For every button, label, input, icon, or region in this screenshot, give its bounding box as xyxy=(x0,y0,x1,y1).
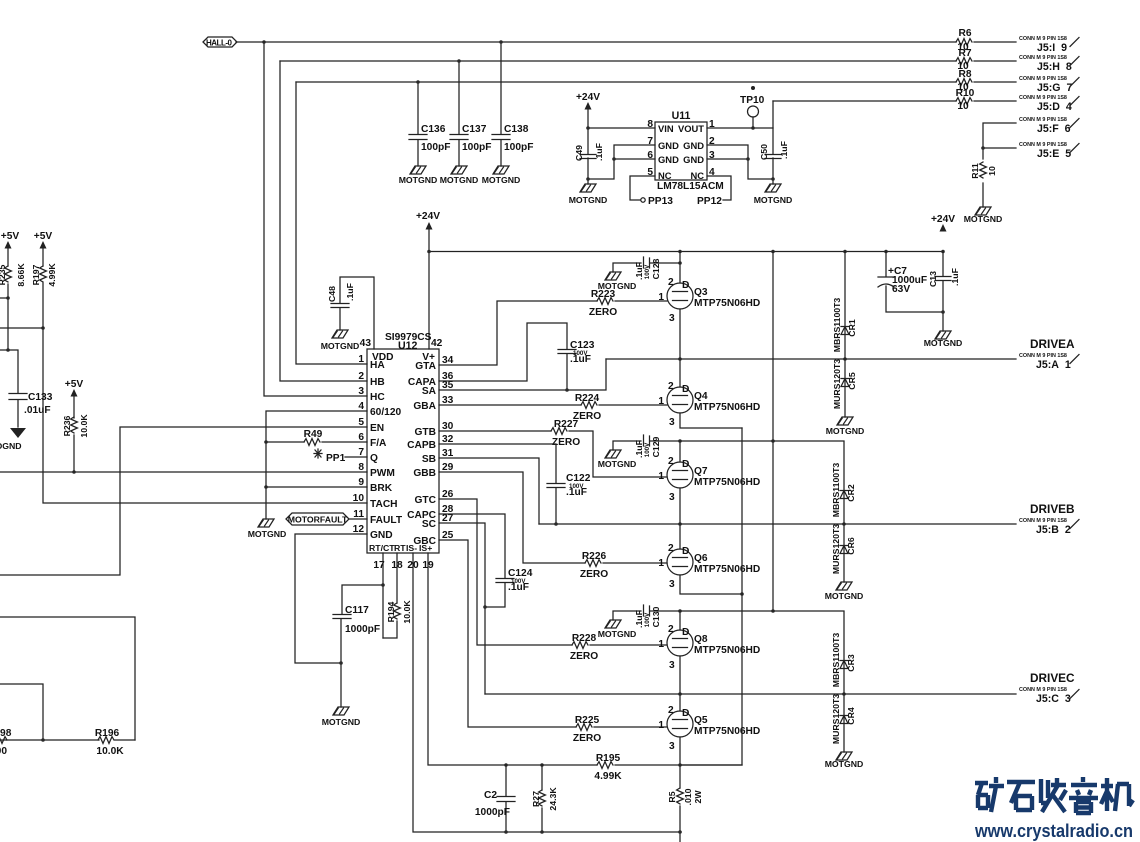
svg-text:60/120: 60/120 xyxy=(370,407,401,418)
svg-text:J5:D 4: J5:D 4 xyxy=(1037,101,1072,113)
svg-text:C133: C133 xyxy=(28,392,53,403)
svg-text:+24V: +24V xyxy=(416,211,440,222)
svg-text:C48: C48 xyxy=(327,286,337,302)
svg-text:R227: R227 xyxy=(554,419,579,430)
svg-text:HALL-0: HALL-0 xyxy=(206,39,232,48)
svg-text:100V: 100V xyxy=(644,442,651,457)
svg-text:1000pF: 1000pF xyxy=(475,807,510,818)
svg-text:R7: R7 xyxy=(958,48,971,59)
svg-text:PWM: PWM xyxy=(370,468,395,479)
svg-text:Q4: Q4 xyxy=(694,391,708,402)
svg-text:MTP75N06HD: MTP75N06HD xyxy=(694,298,760,309)
svg-text:MTP75N06HD: MTP75N06HD xyxy=(694,645,760,656)
svg-text:D: D xyxy=(682,546,689,557)
svg-text:43: 43 xyxy=(360,338,372,349)
svg-text:GND: GND xyxy=(683,140,704,151)
svg-text:TACH: TACH xyxy=(370,499,398,510)
svg-text:GBA: GBA xyxy=(413,401,436,412)
svg-text:IS-: IS- xyxy=(406,543,417,553)
svg-text:R10: R10 xyxy=(956,88,975,99)
svg-text:MBRS1100T3: MBRS1100T3 xyxy=(832,298,842,353)
svg-text:HC: HC xyxy=(370,392,385,403)
svg-text:D: D xyxy=(682,384,689,395)
svg-text:C2: C2 xyxy=(484,790,497,801)
svg-text:10.0K: 10.0K xyxy=(79,414,89,438)
svg-text:3: 3 xyxy=(669,313,675,324)
svg-text:1: 1 xyxy=(658,720,664,731)
svg-text:MOTGND: MOTGND xyxy=(440,175,479,185)
svg-text:MOTGND: MOTGND xyxy=(569,195,608,205)
svg-text:LM78L15ACM: LM78L15ACM xyxy=(657,181,724,192)
svg-text:8: 8 xyxy=(358,462,364,473)
svg-text:C128: C128 xyxy=(651,258,661,279)
svg-text:GND: GND xyxy=(658,154,679,165)
svg-text:C137: C137 xyxy=(462,124,487,135)
svg-text:32: 32 xyxy=(442,434,454,445)
svg-text:.1uF: .1uF xyxy=(566,487,587,498)
svg-text:MOTGND: MOTGND xyxy=(598,629,637,639)
svg-text:2: 2 xyxy=(668,705,674,716)
svg-text:100V: 100V xyxy=(644,264,651,279)
svg-text:2: 2 xyxy=(668,277,674,288)
svg-text:10: 10 xyxy=(353,493,365,504)
svg-text:C50: C50 xyxy=(759,144,769,160)
svg-text:100pF: 100pF xyxy=(462,142,491,153)
svg-text:C136: C136 xyxy=(421,124,446,135)
svg-text:C129: C129 xyxy=(651,436,661,457)
svg-text:D: D xyxy=(682,708,689,719)
svg-text:100pF: 100pF xyxy=(421,142,450,153)
svg-text:MBRS1100T3: MBRS1100T3 xyxy=(831,633,841,688)
svg-text:MOTGND: MOTGND xyxy=(321,341,360,351)
svg-text:3: 3 xyxy=(669,660,675,671)
svg-text:R197: R197 xyxy=(31,264,41,285)
svg-text:.010: .010 xyxy=(683,788,693,805)
svg-text:RT/CT: RT/CT xyxy=(369,543,395,553)
svg-text:GTB: GTB xyxy=(414,427,436,438)
svg-text:10: 10 xyxy=(987,166,997,176)
svg-text:GND: GND xyxy=(683,154,704,165)
svg-text:.1uF: .1uF xyxy=(508,582,529,593)
svg-text:BRK: BRK xyxy=(370,483,393,494)
svg-text:12: 12 xyxy=(353,524,365,535)
svg-text:MURS120T3: MURS120T3 xyxy=(831,694,841,744)
svg-text:MOTGND: MOTGND xyxy=(825,759,864,769)
svg-text:J5:B 2: J5:B 2 xyxy=(1036,524,1071,536)
svg-text:24.3K: 24.3K xyxy=(548,787,558,811)
svg-text:MTP75N06HD: MTP75N06HD xyxy=(694,402,760,413)
svg-text:U12: U12 xyxy=(398,340,418,352)
svg-text:10.0K: 10.0K xyxy=(96,746,124,757)
svg-text:J5:I 9: J5:I 9 xyxy=(1037,42,1067,54)
svg-text:PP13: PP13 xyxy=(648,196,673,207)
svg-text:HA: HA xyxy=(370,360,385,371)
svg-text:TP10: TP10 xyxy=(740,95,765,106)
svg-text:2: 2 xyxy=(668,381,674,392)
svg-text:+24V: +24V xyxy=(576,92,600,103)
svg-text:R6: R6 xyxy=(958,28,971,39)
svg-text:R196: R196 xyxy=(95,728,120,739)
svg-text:+5V: +5V xyxy=(1,231,20,242)
svg-text:3: 3 xyxy=(669,492,675,503)
svg-text:2: 2 xyxy=(358,371,364,382)
svg-text:R224: R224 xyxy=(575,393,600,404)
svg-text:MTP75N06HD: MTP75N06HD xyxy=(694,564,760,575)
svg-text:1: 1 xyxy=(658,558,664,569)
svg-text:+5V: +5V xyxy=(34,231,53,242)
svg-text:EN: EN xyxy=(370,423,384,434)
svg-text:CR3: CR3 xyxy=(846,654,856,672)
svg-text:10.0K: 10.0K xyxy=(402,600,412,624)
svg-text:MOTGND: MOTGND xyxy=(754,195,793,205)
svg-text:MOTGND: MOTGND xyxy=(924,338,963,348)
svg-text:R225: R225 xyxy=(575,715,600,726)
svg-text:PP12: PP12 xyxy=(697,196,722,207)
svg-text:R27: R27 xyxy=(531,791,541,807)
svg-text:GTC: GTC xyxy=(414,495,436,506)
svg-text:Q7: Q7 xyxy=(694,466,708,477)
svg-text:PP1: PP1 xyxy=(326,453,346,464)
svg-text:MURS120T3: MURS120T3 xyxy=(831,524,841,574)
svg-text:D: D xyxy=(682,280,689,291)
svg-text:.1uF: .1uF xyxy=(634,610,644,628)
svg-text:J5:C 3: J5:C 3 xyxy=(1036,693,1071,705)
svg-text:100V: 100V xyxy=(644,612,651,627)
svg-text:J5:F 6: J5:F 6 xyxy=(1037,123,1071,135)
svg-text:R195: R195 xyxy=(596,753,621,764)
svg-text:R8: R8 xyxy=(958,69,971,80)
svg-text:IS+: IS+ xyxy=(419,543,432,553)
svg-text:2: 2 xyxy=(668,624,674,635)
svg-text:R235: R235 xyxy=(0,264,7,285)
svg-text:5: 5 xyxy=(358,417,364,428)
svg-text:11: 11 xyxy=(353,509,364,520)
svg-text:RT: RT xyxy=(394,543,406,553)
svg-text:.1uF: .1uF xyxy=(594,143,604,161)
svg-text:33: 33 xyxy=(442,395,454,406)
svg-text:C130: C130 xyxy=(651,606,661,627)
svg-text:J5:H 8: J5:H 8 xyxy=(1037,61,1072,73)
svg-text:www.crystalradio.cn: www.crystalradio.cn xyxy=(974,821,1133,841)
svg-text:Q8: Q8 xyxy=(694,634,708,645)
svg-text:C49: C49 xyxy=(574,145,584,161)
svg-text:1: 1 xyxy=(658,471,664,482)
svg-text:.1uF: .1uF xyxy=(634,440,644,458)
svg-text:26: 26 xyxy=(442,489,454,500)
svg-text:CR1: CR1 xyxy=(847,319,857,337)
svg-text:1: 1 xyxy=(358,354,364,365)
svg-text:CR6: CR6 xyxy=(846,537,856,555)
svg-text:ZERO: ZERO xyxy=(580,569,608,580)
svg-text:VIN: VIN xyxy=(658,123,674,134)
svg-text:MOTGND: MOTGND xyxy=(826,426,865,436)
svg-text:MURS120T3: MURS120T3 xyxy=(832,359,842,409)
svg-text:GBB: GBB xyxy=(413,468,436,479)
svg-text:R194: R194 xyxy=(386,601,396,622)
svg-text:MOTGND: MOTGND xyxy=(248,529,287,539)
svg-text:30: 30 xyxy=(442,421,454,432)
svg-text:Q3: Q3 xyxy=(694,287,708,298)
svg-text:DRIVEB: DRIVEB xyxy=(1030,502,1075,516)
svg-text:34: 34 xyxy=(442,355,454,366)
svg-text:CR2: CR2 xyxy=(846,484,856,502)
svg-text:1000pF: 1000pF xyxy=(345,624,380,635)
svg-text:DRIVEA: DRIVEA xyxy=(1030,337,1075,351)
svg-text:6: 6 xyxy=(358,432,364,443)
svg-text:35: 35 xyxy=(442,380,454,391)
svg-text:CR5: CR5 xyxy=(847,372,857,390)
svg-text:MTP75N06HD: MTP75N06HD xyxy=(694,726,760,737)
svg-text:.1uF: .1uF xyxy=(950,268,960,286)
svg-text:MOTGND: MOTGND xyxy=(825,591,864,601)
svg-text:CAPB: CAPB xyxy=(407,440,436,451)
svg-text:J5:A 1: J5:A 1 xyxy=(1036,359,1071,371)
svg-text:SB: SB xyxy=(422,454,436,465)
svg-text:GTA: GTA xyxy=(415,361,436,372)
svg-text:2W: 2W xyxy=(693,790,703,804)
svg-text:.1uF: .1uF xyxy=(345,283,355,301)
svg-text:MOTGND: MOTGND xyxy=(322,717,361,727)
svg-text:C117: C117 xyxy=(345,605,369,616)
svg-text:31: 31 xyxy=(442,448,454,459)
svg-text:C13: C13 xyxy=(928,271,938,287)
svg-text:MOTGND: MOTGND xyxy=(964,214,1003,224)
svg-text:29: 29 xyxy=(442,462,454,473)
svg-text:4.99K: 4.99K xyxy=(594,771,622,782)
svg-text:3: 3 xyxy=(669,579,675,590)
svg-text:HB: HB xyxy=(370,377,385,388)
svg-text:MOTGND: MOTGND xyxy=(598,281,637,291)
svg-text:SC: SC xyxy=(422,519,437,530)
svg-text:4.99K: 4.99K xyxy=(47,263,57,287)
svg-text:ZERO: ZERO xyxy=(573,733,601,744)
svg-text:3: 3 xyxy=(358,386,364,397)
svg-text:Q6: Q6 xyxy=(694,553,708,564)
svg-text:C138: C138 xyxy=(504,124,529,135)
svg-text:+5V: +5V xyxy=(65,379,84,390)
svg-text:25: 25 xyxy=(442,530,454,541)
svg-text:.1uF: .1uF xyxy=(634,262,644,280)
svg-text:VOUT: VOUT xyxy=(678,123,704,134)
svg-text:7: 7 xyxy=(358,447,364,458)
svg-text:1: 1 xyxy=(658,292,664,303)
svg-text:2: 2 xyxy=(668,543,674,554)
svg-text:SA: SA xyxy=(422,386,437,397)
svg-text:42: 42 xyxy=(431,338,443,349)
svg-text:.1uF: .1uF xyxy=(779,141,789,159)
svg-text:D: D xyxy=(682,627,689,638)
svg-text:.1uF: .1uF xyxy=(570,354,591,365)
svg-text:MOTGND: MOTGND xyxy=(482,175,521,185)
svg-text:3: 3 xyxy=(669,417,675,428)
svg-text:63V: 63V xyxy=(892,284,910,295)
svg-text:2: 2 xyxy=(668,456,674,467)
svg-text:MOTORFAULT: MOTORFAULT xyxy=(288,515,348,525)
svg-text:Q5: Q5 xyxy=(694,715,708,726)
svg-text:R236: R236 xyxy=(62,415,72,436)
svg-text:100pF: 100pF xyxy=(504,142,533,153)
svg-text:NC: NC xyxy=(658,170,672,181)
svg-text:4: 4 xyxy=(358,401,364,412)
svg-text:MOTGND: MOTGND xyxy=(399,175,438,185)
svg-text:3: 3 xyxy=(669,741,675,752)
svg-text:10: 10 xyxy=(957,101,969,112)
svg-text:R11: R11 xyxy=(970,163,980,179)
svg-text:J5:G 7: J5:G 7 xyxy=(1037,82,1072,94)
svg-text:100: 100 xyxy=(0,746,7,757)
svg-text:ZERO: ZERO xyxy=(589,307,617,318)
svg-text:8.66K: 8.66K xyxy=(16,263,26,287)
svg-text:D: D xyxy=(682,459,689,470)
svg-text:U11: U11 xyxy=(672,110,691,122)
svg-text:R226: R226 xyxy=(582,551,607,562)
svg-text:R228: R228 xyxy=(572,633,597,644)
svg-text:MBRS1100T3: MBRS1100T3 xyxy=(831,463,841,518)
svg-text:CR4: CR4 xyxy=(846,707,856,725)
svg-text:R49: R49 xyxy=(304,429,323,440)
svg-text:F/A: F/A xyxy=(370,438,387,449)
svg-text:NC: NC xyxy=(690,170,704,181)
svg-text:R5: R5 xyxy=(667,791,677,802)
svg-text:.01uF: .01uF xyxy=(24,405,51,416)
svg-text:J5:E 5: J5:E 5 xyxy=(1037,148,1071,160)
svg-text:GND: GND xyxy=(370,530,393,541)
svg-text:9: 9 xyxy=(358,477,364,488)
svg-text:MOTGND: MOTGND xyxy=(598,459,637,469)
svg-text:MTP75N06HD: MTP75N06HD xyxy=(694,477,760,488)
svg-text:R198: R198 xyxy=(0,728,12,739)
svg-text:1: 1 xyxy=(658,639,664,650)
svg-text:27: 27 xyxy=(442,513,454,524)
svg-text:ZERO: ZERO xyxy=(570,651,598,662)
svg-text:GND: GND xyxy=(658,140,679,151)
svg-text:Q: Q xyxy=(370,453,378,464)
svg-text:DRIVEC: DRIVEC xyxy=(1030,671,1075,685)
svg-text:FAULT: FAULT xyxy=(370,515,403,526)
svg-text:+24V: +24V xyxy=(931,214,955,225)
svg-text:DGND: DGND xyxy=(0,441,22,451)
svg-text:1: 1 xyxy=(658,396,664,407)
